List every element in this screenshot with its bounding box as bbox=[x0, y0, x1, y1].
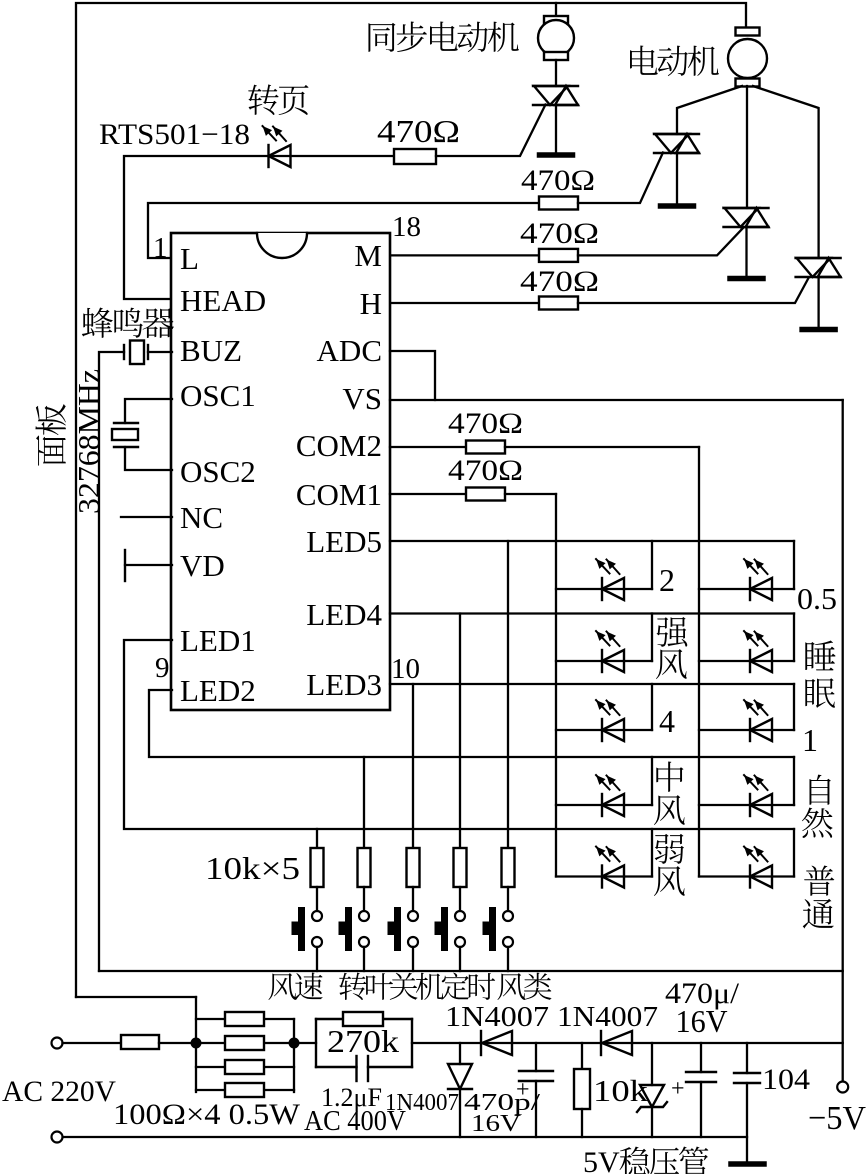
wire: R1 to T1 gate bbox=[436, 105, 546, 157]
key labels 风速 转叶 关机 定时 风类 bbox=[268, 973, 296, 1000]
wire: L pin (1) bracket bbox=[148, 203, 539, 258]
wire: LED5 pin row bbox=[390, 540, 794, 542]
wire: R4 to T4 gate bbox=[578, 278, 809, 303]
resistor R2 470Ω bbox=[539, 197, 578, 210]
resistor R1 470Ω bbox=[394, 149, 436, 164]
svg-text:+: + bbox=[671, 1076, 685, 1102]
wire: LED3 pin row bbox=[390, 683, 794, 685]
wire: matrix row 4 right cell bbox=[699, 804, 794, 806]
svg-text:LED1: LED1 bbox=[180, 623, 256, 658]
svg-text:LED4: LED4 bbox=[306, 597, 382, 632]
triac T2 bbox=[654, 133, 699, 135]
diode D1 1N4007 bbox=[480, 1031, 482, 1055]
wire: bank to 270k block bbox=[294, 1042, 316, 1044]
wire: SW3 to common bus bbox=[412, 947, 414, 971]
IC U1 notch bbox=[257, 233, 307, 258]
resistor R3 470Ω bbox=[539, 249, 578, 262]
wire: R5 to COM2 bus bbox=[505, 446, 699, 448]
svg-text:1N4007: 1N4007 bbox=[557, 1001, 658, 1033]
wire: Rk2 to key SW2 bbox=[363, 887, 365, 911]
capacitor C2 470p/16V bbox=[535, 1043, 537, 1071]
crystal X1 32768Hz bbox=[114, 422, 138, 424]
matrix label 睡眠 bbox=[805, 641, 835, 671]
LED DL1 (left column) bbox=[601, 578, 603, 600]
diode D3 1N4007 (vertical) bbox=[459, 1043, 461, 1064]
wire: R3 to T3 gate bbox=[578, 228, 743, 255]
key switch SW5 bbox=[489, 907, 496, 951]
wire: LED2 pin row bbox=[149, 690, 794, 757]
zener DZ 5V bbox=[651, 1043, 653, 1085]
matrix label 中风 bbox=[656, 762, 683, 792]
wire: Rk1 to key SW1 bbox=[316, 887, 318, 911]
wire: key column 3 drop bbox=[412, 684, 414, 848]
svg-text:OSC1: OSC1 bbox=[180, 378, 256, 413]
svg-text:RTS501−18: RTS501−18 bbox=[99, 118, 250, 151]
wire: Rk5 to key SW5 bbox=[507, 887, 509, 911]
wire: matrix row 1 right cell bbox=[699, 588, 794, 590]
resistor R8 10k bbox=[581, 1043, 583, 1069]
wire: key column 2 drop bbox=[363, 757, 365, 848]
svg-text:32768MHz: 32768MHz bbox=[71, 369, 106, 514]
capacitor C4 104 bbox=[746, 1043, 748, 1073]
resistor R7 270k bbox=[343, 1012, 383, 1026]
LED DR3 (right column) bbox=[749, 719, 751, 741]
LED DL3 (left column) bbox=[601, 719, 603, 741]
terminal: AC neutral bbox=[52, 1132, 63, 1143]
LED DR4 (right column) bbox=[749, 794, 751, 816]
svg-text:NC: NC bbox=[180, 500, 223, 535]
svg-text:270k: 270k bbox=[327, 1023, 399, 1059]
wire: M2 to triac T4 (right diagonal) bbox=[753, 86, 819, 258]
ground under C4 bbox=[731, 1161, 764, 1167]
triac T1 bbox=[533, 85, 578, 87]
matrix label 普通 bbox=[804, 865, 834, 895]
node: junction right bbox=[289, 1038, 300, 1049]
svg-text:M: M bbox=[354, 238, 382, 273]
key switch SW4 bbox=[441, 907, 448, 951]
svg-text:10k×5: 10k×5 bbox=[205, 851, 300, 886]
LED DR5 (right column) bbox=[749, 866, 751, 888]
wire: H pin to R4 bbox=[390, 302, 539, 304]
ground under T4 bbox=[802, 327, 835, 333]
terminal: -5V bbox=[837, 1082, 848, 1093]
svg-text:ADC: ADC bbox=[317, 333, 382, 368]
key switch SW1 bbox=[298, 907, 305, 951]
svg-text:100Ω×4 0.5W: 100Ω×4 0.5W bbox=[113, 1098, 301, 1131]
270k/1.2uF block box bbox=[315, 1019, 317, 1067]
wire: T1 to ground bbox=[555, 105, 557, 153]
label 蜂鸣器 (buzzer) bbox=[82, 307, 113, 337]
LED DR2 (right column) bbox=[749, 650, 751, 672]
resistor Rk5 10k bbox=[502, 848, 515, 887]
capacitor C3 470μ/16V bbox=[700, 1043, 702, 1072]
wire: SW5 to common bus bbox=[507, 947, 509, 971]
svg-text:4: 4 bbox=[659, 703, 675, 739]
matrix label 弱风 bbox=[655, 834, 684, 864]
svg-text:470Ω: 470Ω bbox=[448, 407, 523, 440]
ground under T1 bbox=[540, 152, 573, 158]
svg-text:VS: VS bbox=[342, 381, 382, 416]
wire: Rk4 to key SW4 bbox=[459, 887, 461, 911]
wire: LED4 pin row bbox=[390, 612, 794, 614]
wire: Rk3 to key SW3 bbox=[412, 887, 414, 911]
motor M1 同步电动机 label bbox=[368, 23, 395, 52]
wire: LED1 pin row bbox=[124, 640, 794, 829]
svg-text:−5V: −5V bbox=[808, 1100, 866, 1137]
wire: R2 to T2 gate bbox=[578, 153, 663, 204]
triac T3 bbox=[724, 207, 769, 209]
wire: matrix row 2 right cell bbox=[699, 660, 794, 662]
LED DL2 (left column) bbox=[601, 650, 603, 672]
matrix label 强风 bbox=[656, 617, 687, 647]
resistors Rb1-Rb4 100Ω bbox=[225, 1012, 264, 1026]
wire: SW2 to common bus bbox=[363, 947, 365, 971]
triac T4 bbox=[796, 257, 841, 259]
svg-text:470Ω: 470Ω bbox=[520, 217, 599, 250]
wire: M1 top stub bbox=[555, 3, 557, 17]
resistor Rk4 10k bbox=[454, 848, 467, 887]
resistor Rk2 10k bbox=[358, 848, 371, 887]
wire: OSC1 to crystal bbox=[125, 399, 172, 423]
label 面板 (panel, rotated) bbox=[35, 404, 65, 466]
wire: SW1 to common bus bbox=[316, 947, 318, 971]
wire: matrix row 5 right cell bbox=[699, 875, 794, 877]
svg-text:BUZ: BUZ bbox=[180, 333, 242, 368]
LED D-page (RTS501-18) bbox=[267, 145, 269, 167]
motor M1 (synchronous motor) bbox=[544, 16, 568, 24]
motor M2 bbox=[736, 28, 760, 36]
VD pin lead bbox=[125, 564, 172, 566]
svg-text:H: H bbox=[360, 286, 382, 321]
svg-text:L: L bbox=[180, 241, 199, 276]
svg-text:10: 10 bbox=[391, 653, 420, 685]
wire: key column 5 drop bbox=[507, 541, 509, 848]
NC pin stub bbox=[121, 516, 172, 518]
svg-text:0.5: 0.5 bbox=[797, 581, 837, 616]
motor M2 电动机 label bbox=[630, 45, 658, 74]
wire: ADC pin bracket to VS bbox=[390, 351, 435, 400]
resistor R5 470Ω bbox=[466, 441, 505, 454]
wire: terminal to fuse bbox=[63, 1042, 122, 1044]
wire: 270k block to rail bbox=[412, 1042, 843, 1044]
svg-text:LED3: LED3 bbox=[306, 667, 382, 702]
svg-text:18: 18 bbox=[392, 211, 421, 243]
svg-text:LED2: LED2 bbox=[180, 673, 256, 708]
wire: T2 to ground bbox=[676, 153, 678, 204]
LED DL5 (left column) bbox=[601, 866, 603, 888]
resistor Rk3 10k bbox=[407, 848, 420, 887]
wire: T3 to ground bbox=[745, 227, 747, 276]
svg-text:LED5: LED5 bbox=[306, 524, 382, 559]
wire: matrix row 3 right cell bbox=[699, 729, 794, 731]
IC U1 RTS501-18 body bbox=[171, 233, 390, 710]
wire: SW4 to common bus bbox=[459, 947, 461, 971]
resistor R4 470Ω bbox=[539, 297, 578, 310]
wire: key common bus bbox=[99, 970, 843, 972]
wire: matrix row 1 left cell bbox=[556, 588, 652, 590]
fuse F1 bbox=[121, 1035, 159, 1049]
svg-text:2: 2 bbox=[659, 562, 675, 598]
wire: COM2 pin to R5 bbox=[390, 446, 466, 448]
svg-text:COM2: COM2 bbox=[296, 428, 382, 463]
svg-text:16V: 16V bbox=[676, 1003, 728, 1039]
wire: frame bottom-left to resistor bank bbox=[76, 996, 196, 998]
LED DR1 (right column) bbox=[749, 578, 751, 600]
svg-text:470Ω: 470Ω bbox=[520, 265, 599, 298]
LED DL4 (left column) bbox=[601, 794, 603, 816]
wire: T4 to ground bbox=[817, 277, 819, 327]
wire: key column 1 drop bbox=[316, 829, 318, 848]
wire: M pin (18) to R3 bbox=[390, 254, 539, 256]
wire: COM1 column bus bbox=[555, 494, 557, 877]
svg-text:470Ω: 470Ω bbox=[377, 113, 460, 149]
ground under T3 bbox=[730, 276, 763, 282]
svg-text:9: 9 bbox=[155, 652, 170, 684]
capacitor C1 1.2uF plates bbox=[355, 1056, 357, 1081]
wire: M2 to triac T2 (left diagonal) bbox=[677, 86, 742, 134]
wire: matrix row 5 left cell bbox=[556, 875, 652, 877]
wire: fuse to resistor bank bbox=[159, 1042, 196, 1044]
resistor R6 470Ω bbox=[466, 488, 505, 501]
svg-text:VD: VD bbox=[180, 548, 225, 583]
VD terminator bar bbox=[124, 550, 126, 581]
resistor Rk1 10k bbox=[311, 848, 324, 887]
diode D2 1N4007 bbox=[600, 1031, 602, 1055]
svg-text:10k: 10k bbox=[593, 1073, 649, 1108]
wire: key column 4 drop bbox=[459, 614, 461, 849]
svg-text:COM1: COM1 bbox=[296, 477, 382, 512]
terminal: AC live bbox=[52, 1038, 63, 1049]
svg-text:OSC2: OSC2 bbox=[180, 454, 256, 489]
svg-text:104: 104 bbox=[762, 1063, 810, 1096]
buzzer BZ1 bbox=[147, 345, 149, 359]
wire: COM1 pin to R6 bbox=[390, 493, 466, 495]
svg-text:1N4007: 1N4007 bbox=[385, 1090, 459, 1116]
svg-text:470Ω: 470Ω bbox=[521, 164, 595, 197]
svg-text:470Ω: 470Ω bbox=[448, 454, 523, 487]
ground under T2 bbox=[661, 203, 694, 209]
wire: right bus (VS / -5V) bbox=[842, 400, 844, 1082]
wire: COM2 column bus bbox=[698, 447, 700, 877]
wire: crystal to OSC2 bbox=[125, 447, 172, 470]
key switch SW3 bbox=[394, 907, 401, 951]
svg-text:AC 220V: AC 220V bbox=[2, 1075, 116, 1108]
wire: HEAD pin to LED D-page bbox=[124, 156, 394, 299]
node: junction left bbox=[191, 1038, 202, 1049]
wire: VS pin to right bus bbox=[390, 399, 843, 401]
svg-text:1: 1 bbox=[802, 722, 818, 758]
svg-text:1: 1 bbox=[153, 232, 168, 264]
resistor bank 100Ω×4 rails bbox=[195, 997, 197, 1092]
wire: M1 to triac T1 bbox=[555, 60, 557, 86]
svg-text:16V: 16V bbox=[471, 1111, 522, 1137]
svg-text:HEAD: HEAD bbox=[180, 283, 266, 318]
resistor bank leads bbox=[196, 1018, 225, 1020]
wire: buzzer to common bus bbox=[99, 352, 124, 971]
wire: matrix row 4 left cell bbox=[556, 804, 652, 806]
wire: BUZ pin lead right bbox=[148, 351, 172, 353]
wire: R6 to COM1 bus bbox=[505, 493, 556, 495]
wire: panel frame left+top, to motor2 feed bbox=[76, 3, 746, 997]
wire: matrix row 3 left cell bbox=[556, 729, 652, 731]
key switch SW2 bbox=[345, 907, 352, 951]
wire: bottom rail bbox=[63, 1136, 748, 1138]
svg-text:5V: 5V bbox=[583, 1146, 620, 1174]
wire: M2 to triac T3 (middle) bbox=[746, 86, 748, 208]
label 转页 (page turn) bbox=[248, 84, 278, 115]
wire: matrix row 2 left cell bbox=[556, 660, 652, 662]
svg-text:1N4007: 1N4007 bbox=[445, 1001, 549, 1033]
matrix label 自然 bbox=[809, 775, 830, 805]
